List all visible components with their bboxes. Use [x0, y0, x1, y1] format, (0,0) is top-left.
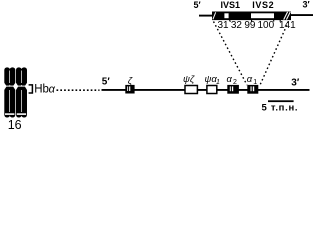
5' UTR hatch on bar [213, 12, 216, 19]
expansion dotted line right [260, 22, 289, 86]
svg-text:141: 141 [279, 20, 296, 31]
IVS2 intron white box [251, 13, 274, 18]
codon tick 141 [279, 20, 281, 22]
svg-text:99: 99 [244, 20, 256, 31]
svg-text:1: 1 [216, 79, 220, 86]
svg-text:IVS2: IVS2 [252, 0, 274, 10]
svg-text:3′: 3′ [291, 78, 300, 89]
pseudogene psi-zeta box [185, 86, 197, 94]
bracket ] next to chromosome pair [29, 85, 33, 93]
3' UTR hatch on bar [284, 12, 288, 20]
svg-text:ψζ: ψζ [183, 74, 195, 85]
dotted leader wire from Hb alpha to cluster line [57, 89, 100, 91]
top line right wire [290, 14, 313, 16]
IVS1 intron white box [224, 13, 228, 18]
gene zeta box [125, 85, 134, 94]
svg-text:ζ: ζ [128, 75, 133, 86]
svg-text:α: α [247, 74, 253, 85]
svg-text:IVS1: IVS1 [221, 0, 241, 10]
svg-text:Hb: Hb [34, 83, 49, 95]
svg-text:1: 1 [253, 79, 257, 86]
svg-text:32: 32 [231, 20, 243, 31]
svg-text:5′: 5′ [194, 0, 201, 10]
svg-text:3′: 3′ [303, 0, 310, 10]
codon tick IVS2 start [251, 20, 253, 22]
expanded alpha1 gene: top line left wire [199, 15, 213, 17]
svg-text:2: 2 [233, 79, 237, 86]
svg-text:31: 31 [217, 20, 229, 31]
expansion dotted line left [214, 22, 248, 86]
gene alpha2 box [227, 85, 239, 94]
svg-text:5′: 5′ [102, 77, 111, 88]
svg-text:16: 16 [8, 118, 22, 131]
codon tick IVS2 end [273, 20, 275, 22]
svg-text:5 т.п.н.: 5 т.п.н. [262, 103, 299, 114]
svg-text:α: α [49, 83, 56, 95]
pseudogene psi-alpha1 box [207, 86, 217, 94]
chromosome 16 ideogram (homologous pair) [4, 67, 27, 117]
scale bar (5 kb) [268, 100, 294, 102]
main cluster line wire [102, 89, 310, 91]
svg-text:α: α [227, 74, 233, 85]
alpha1 gene expanded bar [212, 12, 291, 21]
codon tick 31/32 [229, 20, 230, 22]
svg-text:100: 100 [257, 20, 274, 31]
gene alpha1 box [247, 85, 258, 94]
